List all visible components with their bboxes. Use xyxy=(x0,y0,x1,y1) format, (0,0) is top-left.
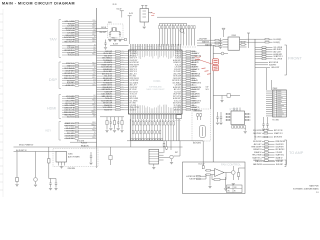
svg-text:CH-UP KEY: CH-UP KEY xyxy=(173,94,181,96)
svg-text:TU B+5V: TU B+5V xyxy=(175,51,181,53)
labels below auto power xyxy=(68,168,76,170)
ground below Q801 xyxy=(34,185,37,187)
svg-text:R915: R915 xyxy=(92,41,95,43)
svg-text:KEY MUTE F: KEY MUTE F xyxy=(65,73,75,75)
svg-text:KEY MUTE F: KEY MUTE F xyxy=(172,80,181,82)
svg-text:102: 102 xyxy=(192,105,195,107)
components below IC902 xyxy=(232,126,246,131)
svg-text:STBY 5V F: STBY 5V F xyxy=(130,69,137,71)
wire right of reset xyxy=(174,141,180,156)
svg-text:B+3.3V(F): B+3.3V(F) xyxy=(274,39,282,41)
wire top bus to right xyxy=(157,16,211,18)
svg-text:FRONT: FRONT xyxy=(288,56,302,61)
svg-text:P-ON 5V: P-ON 5V xyxy=(81,142,87,144)
red value box 2 xyxy=(213,65,219,71)
svg-text:BT 3.3V M: BT 3.3V M xyxy=(130,89,138,91)
svg-text:B+5V: B+5V xyxy=(129,13,133,15)
wire bus drop bottom xyxy=(96,147,98,168)
svg-text:R915: R915 xyxy=(92,39,95,41)
svg-text:TU B+5V: TU B+5V xyxy=(68,55,76,57)
svg-text:BT 3.3V M: BT 3.3V M xyxy=(77,141,85,143)
eeprom IC903 xyxy=(223,35,247,50)
svg-text:R934: R934 xyxy=(192,51,196,53)
fan caps and grounds xyxy=(208,176,227,190)
connector group TV/AV rows xyxy=(62,20,97,57)
svg-text:CN903 DIMM: CN903 DIMM xyxy=(193,110,203,112)
svg-text:C-IN DSP: C-IN DSP xyxy=(67,48,74,50)
capacitor C910 at IC903 xyxy=(219,38,222,49)
ground below IC902 xyxy=(244,132,247,134)
svg-text:100: 100 xyxy=(93,82,95,84)
svg-text:CH-UP KEY: CH-UP KEY xyxy=(130,60,138,62)
bracket TO AMP xyxy=(285,140,287,165)
svg-text:VOL UP/DN: VOL UP/DN xyxy=(274,58,283,60)
svg-text:CH-DN KEY: CH-DN KEY xyxy=(192,89,200,91)
wire rows below to amp xyxy=(253,160,283,166)
wire rows power to front xyxy=(247,38,282,43)
svg-text:102: 102 xyxy=(121,86,123,88)
svg-text:IC903: IC903 xyxy=(232,35,236,37)
svg-text:SIF-IN DSP: SIF-IN DSP xyxy=(66,128,74,130)
svg-text:1K: 1K xyxy=(94,45,96,47)
svg-text:RST OUT M: RST OUT M xyxy=(65,103,74,105)
svg-text:B+5V MICOM: B+5V MICOM xyxy=(64,37,75,39)
pin stubs IC901 top xyxy=(130,44,180,50)
svg-text:102: 102 xyxy=(121,59,123,61)
svg-text:RST OUT M: RST OUT M xyxy=(173,96,182,98)
svg-text:X901: X901 xyxy=(108,22,112,24)
svg-text:C910: C910 xyxy=(192,91,196,93)
svg-text:RST OUT M: RST OUT M xyxy=(65,28,74,30)
svg-text:BT 3.3V M: BT 3.3V M xyxy=(130,51,138,53)
svg-text:CH-DN KEY: CH-DN KEY xyxy=(173,78,181,80)
svg-text:C915: C915 xyxy=(92,75,95,77)
wires above CN902 xyxy=(267,68,272,90)
svg-text:PWR ON/OFF: PWR ON/OFF xyxy=(130,64,139,66)
net labels under array xyxy=(158,46,196,48)
svg-text:C-IN DSP: C-IN DSP xyxy=(276,161,283,163)
diode D801 branch xyxy=(16,152,19,184)
connector group DSP rows xyxy=(62,62,97,87)
svg-text:R934: R934 xyxy=(92,122,95,124)
svg-text:CH-UP KEY: CH-UP KEY xyxy=(65,71,75,73)
svg-text:C-IN DSP: C-IN DSP xyxy=(276,152,283,154)
svg-text:C915: C915 xyxy=(92,70,95,72)
svg-text:CH-UP KEY: CH-UP KEY xyxy=(192,103,200,105)
svg-text:B+5V MICOM: B+5V MICOM xyxy=(192,87,202,89)
svg-text:C910: C910 xyxy=(121,93,124,95)
svg-text:SCL M 5V: SCL M 5V xyxy=(67,117,75,119)
svg-text:B+5V(F): B+5V(F) xyxy=(274,42,281,44)
wire dc12v drop xyxy=(202,141,204,169)
svg-text:102: 102 xyxy=(93,95,95,97)
svg-text:DDC SCL H1: DDC SCL H1 xyxy=(65,110,75,112)
svg-text:4.7K: 4.7K xyxy=(121,109,124,111)
svg-text:SW DC POWER 5V: SW DC POWER 5V xyxy=(19,144,34,146)
svg-text:473: 473 xyxy=(192,58,195,60)
svg-text:CEC HDMI-1: CEC HDMI-1 xyxy=(172,82,181,84)
svg-text:TU B+5V: TU B+5V xyxy=(175,58,181,60)
ground below reset block xyxy=(152,164,155,169)
svg-text:TU B+5V: TU B+5V xyxy=(175,64,181,66)
svg-text:R912: R912 xyxy=(121,81,124,83)
svg-text:1K: 1K xyxy=(121,95,123,97)
svg-text:RN901: RN901 xyxy=(121,57,125,59)
svg-text:ON: ON xyxy=(227,191,229,193)
svg-text:R915: R915 xyxy=(92,130,95,132)
capacitors C801 C802 xyxy=(49,179,57,188)
capacitors below CN902 xyxy=(262,117,269,131)
fan right component xyxy=(237,168,245,180)
pin names IC901 top inside vertical xyxy=(130,51,180,59)
wire rows aux right xyxy=(253,130,283,139)
net label boxes on bottom bus xyxy=(131,139,163,140)
svg-text:R934: R934 xyxy=(121,97,124,99)
fan table xyxy=(227,185,243,193)
svg-text:IC901: IC901 xyxy=(153,79,161,83)
grounds in auto power xyxy=(60,163,93,168)
svg-text:VOL UP/DN: VOL UP/DN xyxy=(274,47,283,49)
svg-text:102: 102 xyxy=(93,29,95,31)
svg-text:IR-IN FRT: IR-IN FRT xyxy=(276,164,283,166)
svg-text:VD 5V MIC: VD 5V MIC xyxy=(66,130,75,132)
svg-text:RST OUT M: RST OUT M xyxy=(130,91,139,93)
svg-text:R912: R912 xyxy=(121,70,124,72)
power label small xyxy=(113,4,117,6)
svg-text:R940 0: R940 0 xyxy=(112,37,117,39)
svg-text:LED-G FRT: LED-G FRT xyxy=(173,73,181,75)
svg-text:R912: R912 xyxy=(92,34,95,36)
svg-text:KEY MUTE F: KEY MUTE F xyxy=(276,149,285,151)
svg-text:102: 102 xyxy=(93,97,95,99)
svg-text:473: 473 xyxy=(121,72,123,74)
svg-text:C-IN DSP: C-IN DSP xyxy=(174,67,180,69)
svg-text:KEY: KEY xyxy=(46,129,52,133)
transistor Q805 xyxy=(231,166,235,180)
svg-text:3.3V: 3.3V xyxy=(206,86,209,88)
bus net labels xyxy=(206,86,209,91)
wire array top rail xyxy=(159,23,187,25)
svg-text:RN901: RN901 xyxy=(91,124,95,126)
power B+3.3V symbol 1 xyxy=(117,9,124,18)
red value box 1 xyxy=(213,59,219,65)
wire rows TO AMP group xyxy=(251,141,285,162)
wire B+3.3V row xyxy=(110,44,129,46)
svg-text:VD 5V MIC: VD 5V MIC xyxy=(174,71,181,73)
svg-text:CH-DN KEY: CH-DN KEY xyxy=(65,136,75,138)
svg-text:HPD-1 HDMI: HPD-1 HDMI xyxy=(65,21,75,23)
svg-text:RN901: RN901 xyxy=(121,68,125,70)
svg-text:R934: R934 xyxy=(121,88,124,90)
svg-text:R915: R915 xyxy=(92,77,95,79)
label IC901 part no xyxy=(146,86,165,92)
wire IC903 right pullups xyxy=(247,33,250,48)
grounds below caps xyxy=(49,188,58,190)
bead L905 circle xyxy=(213,52,228,55)
op-amp output wire xyxy=(224,172,231,174)
label FRONT xyxy=(288,56,302,61)
svg-text:STBY 5V F: STBY 5V F xyxy=(130,71,137,73)
crystal X901 circuit xyxy=(108,22,124,38)
transistor Q801 xyxy=(34,152,38,185)
wire rows into crystal box xyxy=(96,27,108,34)
micom IC901 body xyxy=(129,50,183,114)
op-amp input wires xyxy=(205,170,215,176)
label SW DC POWER xyxy=(19,144,34,146)
svg-text:CH-UP KEY: CH-UP KEY xyxy=(130,67,138,69)
svg-text:100: 100 xyxy=(121,54,123,56)
svg-text:VD 5V: VD 5V xyxy=(113,4,117,6)
svg-text:C816 R816: C816 R816 xyxy=(68,168,76,170)
wire vertical bus right x255 xyxy=(254,39,256,140)
capacitors left of IC902 xyxy=(216,112,223,125)
pin names IC901 bottom inside vertical xyxy=(130,105,180,113)
svg-text:102: 102 xyxy=(121,61,123,63)
svg-text:DSP: DSP xyxy=(49,77,58,82)
svg-text:CVBS OUT M: CVBS OUT M xyxy=(192,100,202,102)
svg-text:STBY 5V F: STBY 5V F xyxy=(66,63,74,65)
label AC DET xyxy=(16,149,27,152)
wire rows below front xyxy=(255,61,279,69)
svg-text:LED-G FRT: LED-G FRT xyxy=(271,67,279,69)
svg-text:C-IN DSP: C-IN DSP xyxy=(67,98,74,100)
red small notes xyxy=(202,68,211,74)
svg-text:CVBS OUT M: CVBS OUT M xyxy=(130,107,140,109)
wire row reset xyxy=(70,141,97,143)
op-amp IC806 xyxy=(215,169,225,177)
svg-text:R915: R915 xyxy=(92,27,95,29)
svg-text:HPD-1 HDMI: HPD-1 HDMI xyxy=(65,105,75,107)
svg-text:NEW COMPONENT: NEW COMPONENT xyxy=(146,89,165,91)
footer text xyxy=(293,185,319,194)
svg-text:VD 5V MIC: VD 5V MIC xyxy=(66,96,75,98)
svg-text:102: 102 xyxy=(93,47,95,49)
svg-text:CVBS OUT M: CVBS OUT M xyxy=(192,82,202,84)
resistor array RA901 top xyxy=(159,24,195,46)
svg-text:P2.1 INT1: P2.1 INT1 xyxy=(254,137,261,139)
svg-text:12V: 12V xyxy=(234,187,237,189)
svg-text:CH-UP KEY: CH-UP KEY xyxy=(276,144,284,146)
svg-text:RN901: RN901 xyxy=(91,111,95,113)
power symbol IC903 vcc xyxy=(222,28,225,37)
svg-text:C910: C910 xyxy=(192,98,196,100)
transistor Q903 xyxy=(164,155,174,161)
svg-text:B+3.3V: B+3.3V xyxy=(117,9,122,11)
svg-text:SCHEMATIC DIAGRAM (MAIN): SCHEMATIC DIAGRAM (MAIN) xyxy=(293,188,319,191)
svg-text:1K: 1K xyxy=(192,85,194,87)
svg-text:PWR ON/OFF: PWR ON/OFF xyxy=(64,112,74,114)
svg-text:TU B+5V: TU B+5V xyxy=(192,80,198,82)
ground below Q903 xyxy=(170,162,173,164)
svg-text:P2.1 INT1: P2.1 INT1 xyxy=(130,103,137,105)
svg-text:IR-IN FRT: IR-IN FRT xyxy=(269,64,276,66)
svg-text:RST: RST xyxy=(175,152,178,154)
wire rows FRONT group xyxy=(255,47,283,61)
svg-text:H-SYNC DSP: H-SYNC DSP xyxy=(186,176,195,178)
svg-text:IR-IN FRT: IR-IN FRT xyxy=(192,67,199,69)
svg-text:BT 3.3V M: BT 3.3V M xyxy=(67,39,75,41)
svg-text:4.7K: 4.7K xyxy=(121,66,124,68)
ground below D801 xyxy=(15,185,18,187)
pin stubs IC901 bottom xyxy=(130,114,180,119)
wire rows bus to IC901 left pins xyxy=(97,50,129,112)
svg-text:MAIN - MICOM CIRCUIT DIAGRAM: MAIN - MICOM CIRCUIT DIAGRAM xyxy=(2,2,75,6)
svg-text:C915: C915 xyxy=(92,84,95,86)
svg-text:R934: R934 xyxy=(92,104,95,106)
svg-text:B+5V MICOM: B+5V MICOM xyxy=(130,62,140,64)
pullup resistor cluster below IC xyxy=(100,117,124,132)
svg-text:R915: R915 xyxy=(92,113,95,115)
svg-text:1K: 1K xyxy=(121,106,123,108)
svg-text:KEY MUTE F: KEY MUTE F xyxy=(192,60,201,62)
border ruler left edge xyxy=(0,9,3,197)
svg-text:1K: 1K xyxy=(94,132,96,134)
svg-text:P2.1 INT1: P2.1 INT1 xyxy=(273,120,280,122)
svg-text:473: 473 xyxy=(93,22,95,24)
wire vertical bus x210 xyxy=(210,17,212,109)
red leader line xyxy=(201,60,213,64)
svg-text:Y-IN DSP: Y-IN DSP xyxy=(189,179,195,181)
bracket FRONT xyxy=(285,45,287,75)
label HDMI xyxy=(47,106,56,110)
svg-text:HDMI: HDMI xyxy=(47,106,56,110)
bracket DSP xyxy=(59,62,61,89)
svg-text:HPD-1 HDMI: HPD-1 HDMI xyxy=(130,98,139,100)
connector CN903 dashed box xyxy=(192,109,210,145)
pin numbers IC901 top xyxy=(130,45,180,47)
feedback resistor fan xyxy=(212,173,226,181)
svg-text:R934: R934 xyxy=(92,100,95,102)
svg-text:AUTO POWER: AUTO POWER xyxy=(68,155,80,158)
svg-text:1K: 1K xyxy=(94,67,96,69)
svg-text:R934: R934 xyxy=(92,137,95,139)
bracket KEY xyxy=(59,122,61,141)
svg-text:P2.1 INT1: P2.1 INT1 xyxy=(67,133,74,135)
svg-text:CEC HDMI-1: CEC HDMI-1 xyxy=(192,76,201,78)
svg-text:4.7K: 4.7K xyxy=(121,77,124,79)
svg-text:IR-IN FRT: IR-IN FRT xyxy=(174,69,181,71)
svg-text:R915: R915 xyxy=(92,25,95,27)
svg-text:R912: R912 xyxy=(92,62,95,64)
regulator IC805 auto power box xyxy=(53,149,98,167)
svg-text:5V-S: 5V-S xyxy=(206,89,209,91)
svg-text:TU SCL 5V: TU SCL 5V xyxy=(130,94,137,96)
svg-text:4.7K: 4.7K xyxy=(93,116,96,118)
svg-text:IC805: IC805 xyxy=(68,154,73,156)
svg-text:TA/V: TA/V xyxy=(50,37,58,41)
wire IC bottom left drop xyxy=(130,119,132,147)
ground below Q805 xyxy=(232,184,235,186)
sound IC902 body xyxy=(226,108,251,125)
svg-text:TU SCL 5V: TU SCL 5V xyxy=(174,100,181,102)
svg-text:R915: R915 xyxy=(121,63,124,65)
pin names IC901 left inside xyxy=(130,51,140,112)
pin names IC901 right inside xyxy=(172,51,181,112)
label DC 12V xyxy=(199,163,206,165)
resistor R940 jumper row xyxy=(108,37,127,40)
svg-text:10K: 10K xyxy=(121,90,123,92)
svg-text:R912: R912 xyxy=(92,54,95,56)
svg-text:IR-IN FRT: IR-IN FRT xyxy=(67,83,74,85)
svg-text:CVBS OUT M: CVBS OUT M xyxy=(64,107,75,109)
svg-text:100: 100 xyxy=(121,84,123,86)
svg-text:OSC-OUT: OSC-OUT xyxy=(99,32,106,34)
svg-text:10K: 10K xyxy=(93,49,95,51)
svg-text:C-IN DSP: C-IN DSP xyxy=(174,85,180,87)
wire vertical bus x213 xyxy=(212,45,214,162)
svg-text:LED-G FRT: LED-G FRT xyxy=(66,101,74,103)
svg-text:473: 473 xyxy=(121,75,123,77)
resistor arrays below IC901 xyxy=(130,119,179,141)
svg-text:102: 102 xyxy=(93,51,95,53)
resistor R801 branch xyxy=(48,147,56,179)
svg-text:SIF-IN DSP: SIF-IN DSP xyxy=(253,141,261,143)
svg-text:RST OUT M: RST OUT M xyxy=(274,130,283,132)
svg-text:102: 102 xyxy=(93,72,95,74)
red annotation mark top xyxy=(151,13,155,16)
svg-text:PWR ON/OFF: PWR ON/OFF xyxy=(64,78,74,80)
svg-text:SIF-IN DSP: SIF-IN DSP xyxy=(173,76,181,78)
red scribble annotation xyxy=(195,57,201,60)
svg-text:C910: C910 xyxy=(92,65,95,67)
wire bottom bus xyxy=(127,140,203,142)
svg-text:V-SYNC DSP: V-SYNC DSP xyxy=(130,80,139,82)
svg-text:1K: 1K xyxy=(94,36,96,38)
svg-text:C915: C915 xyxy=(121,52,124,54)
svg-text:CH-UP KEY: CH-UP KEY xyxy=(65,138,75,140)
svg-text:10K: 10K xyxy=(93,109,95,111)
svg-text:TO AMP: TO AMP xyxy=(289,151,304,155)
reset IC804 block xyxy=(149,149,164,164)
svg-text:S3F880A AND: S3F880A AND xyxy=(149,86,162,89)
svg-text:LED-G FRT: LED-G FRT xyxy=(66,35,74,37)
wire drop x110 xyxy=(109,147,112,165)
svg-text:MAIN PWB: MAIN PWB xyxy=(309,185,319,188)
svg-text:C-IN DSP: C-IN DSP xyxy=(67,52,74,54)
svg-text:100: 100 xyxy=(93,135,95,137)
svg-text:TU B+5V: TU B+5V xyxy=(175,53,181,55)
svg-text:473: 473 xyxy=(121,50,123,52)
label reset row xyxy=(175,152,178,154)
svg-text:KEY MUTE F: KEY MUTE F xyxy=(65,50,75,52)
jumper circle top array xyxy=(180,29,184,34)
svg-text:B+3.3V: B+3.3V xyxy=(113,44,118,46)
svg-text:DDC SCL H1: DDC SCL H1 xyxy=(65,75,75,77)
fan input rows xyxy=(186,175,206,181)
svg-text:4.7K: 4.7K xyxy=(93,127,96,129)
svg-text:VOL UP/DN: VOL UP/DN xyxy=(192,94,200,96)
wire vertical bus left xyxy=(96,8,98,147)
labels left of power line xyxy=(81,142,88,147)
label TO AMP xyxy=(289,151,304,155)
svg-text:2-3: 2-3 xyxy=(316,192,319,194)
bracket HDMI xyxy=(59,95,61,119)
wires bus to reset xyxy=(163,141,171,153)
svg-text:TU SCL 5V: TU SCL 5V xyxy=(66,30,75,32)
resistor R941 on bus xyxy=(176,115,181,141)
connector CN902 xyxy=(266,88,287,122)
title MAIN - MICOM CIRCUIT DIAGRAM xyxy=(2,2,75,6)
svg-text:1K: 1K xyxy=(121,102,123,104)
svg-text:C910: C910 xyxy=(92,20,95,22)
svg-text:PWR ON/OFF: PWR ON/OFF xyxy=(251,147,261,149)
svg-text:PWR ON/OFF: PWR ON/OFF xyxy=(276,141,286,143)
capacitor C940 xyxy=(104,40,106,47)
label FAN CONTROL xyxy=(221,162,241,166)
label TV/AV xyxy=(50,37,58,41)
ground below X902 xyxy=(143,27,146,29)
svg-text:C910: C910 xyxy=(121,100,124,102)
